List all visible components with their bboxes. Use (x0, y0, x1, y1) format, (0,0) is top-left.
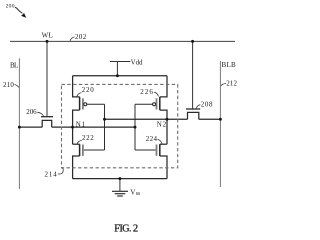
svg-text:N2: N2 (157, 120, 167, 128)
transistor Q222 channel (79, 144, 81, 156)
svg-text:224: 224 (146, 135, 158, 143)
pmos bubble of Q220 (84, 103, 87, 106)
transistor Q220 channel (79, 97, 81, 110)
svg-text:WL: WL (42, 31, 53, 39)
svg-text:Vdd: Vdd (131, 59, 143, 67)
svg-text:206: 206 (26, 108, 37, 116)
leader 220 (77, 93, 82, 97)
Vdd stem (116, 62, 118, 76)
junction dot Vdd stem (116, 74, 119, 77)
gate bar of Q224 (156, 145, 158, 156)
svg-text:212: 212 (226, 79, 237, 87)
leader 226 (154, 92, 158, 96)
junction dot N2 (166, 118, 169, 121)
leader 206 (37, 112, 43, 116)
ground stem (119, 179, 121, 191)
gate wire Q222 to cross vertical (84, 149, 105, 151)
svg-text:208: 208 (201, 101, 213, 109)
ground bar 2 (115, 193, 126, 195)
transistor Q224 drain lead (160, 143, 167, 145)
gate bar of Q220 (82, 98, 84, 109)
gate bar of Q226 (156, 98, 158, 109)
Vdd supply symbol bar (110, 61, 130, 63)
gate wire Q220 to cross vertical (87, 103, 105, 105)
transistor 206 gate bar (41, 116, 53, 118)
wire Vss rail (73, 178, 167, 180)
junction dot BLB/N2 (219, 118, 222, 121)
wire gate of 206 from WL (46, 41, 48, 116)
node N1 wire to right gates (52, 126, 135, 128)
svg-text:214: 214 (45, 170, 58, 178)
ground bar 1 (112, 190, 128, 192)
junction dot WL/gate206 (46, 40, 49, 43)
cross-couple vertical right gates (134, 104, 136, 150)
wire Vdd rail (73, 75, 167, 77)
node N2 wire (105, 118, 188, 120)
transistor Q222 source lead to Vss rail (73, 156, 80, 179)
leader 212 (221, 83, 226, 85)
leader 208 (196, 105, 200, 109)
transistor 208 gate bar (186, 108, 200, 110)
transistor Q224 channel (159, 144, 161, 156)
svg-text:226: 226 (140, 88, 153, 96)
transistor Q226 source lead (160, 76, 167, 97)
dashed box 214 cross-coupled inverter pair (62, 84, 178, 167)
junction dot BL/N1 (18, 126, 21, 129)
leader 202 (70, 37, 75, 41)
svg-text:222: 222 (82, 134, 94, 142)
leader 222 (77, 140, 82, 144)
arrowhead of 200 arrow (21, 13, 26, 18)
transistor Q224 source lead to Vss rail (160, 156, 167, 179)
gate bar of Q222 (82, 145, 84, 156)
svg-text:2: 2 (133, 223, 138, 234)
gate wire Q226 to cross vertical (135, 103, 153, 105)
node N2 wire to BLB (199, 118, 221, 120)
svg-text:N1: N1 (76, 120, 86, 128)
junction dot N2/left gates (103, 118, 106, 121)
transistor 206 channel hat (42, 120, 52, 127)
leader 214 hook (58, 168, 63, 174)
transistor Q220 source lead (73, 76, 80, 97)
transistor Q226 channel (159, 97, 161, 110)
svg-text:BL: BL (10, 61, 18, 69)
bit line BLB 212 (219, 61, 221, 187)
junction dot N1/right gates (134, 126, 137, 129)
svg-text:202: 202 (75, 33, 87, 41)
junction dot Vss (118, 177, 121, 180)
transistor Q220 drain lead / node N1 vertical (73, 110, 80, 144)
junction dot WL/gate208 (191, 40, 194, 43)
wire gate of 208 from WL (192, 41, 194, 108)
transistor 208 channel hat (188, 112, 199, 119)
node N1 wire (19, 126, 42, 128)
svg-text:210: 210 (3, 81, 14, 89)
pmos bubble of Q226 (153, 103, 156, 106)
leader 210 (15, 84, 19, 87)
cross-couple vertical left gates (104, 104, 106, 150)
svg-text:220: 220 (82, 86, 95, 94)
arrow from 200 (15, 7, 23, 13)
ground bar 3 (117, 195, 123, 197)
transistor Q226 drain lead / node N2 vertical (160, 110, 167, 144)
wire word line WL 202 (10, 40, 235, 42)
gate wire Q224 to cross vertical (135, 149, 156, 151)
junction dot N1 (71, 126, 74, 129)
svg-text:200: 200 (6, 3, 15, 9)
leader 224 (157, 139, 162, 143)
svg-text:FIG.: FIG. (114, 223, 131, 234)
transistor Q222 drain lead (73, 143, 80, 145)
bit line BL 210 (18, 58, 20, 189)
svg-text:BLB: BLB (222, 61, 237, 69)
